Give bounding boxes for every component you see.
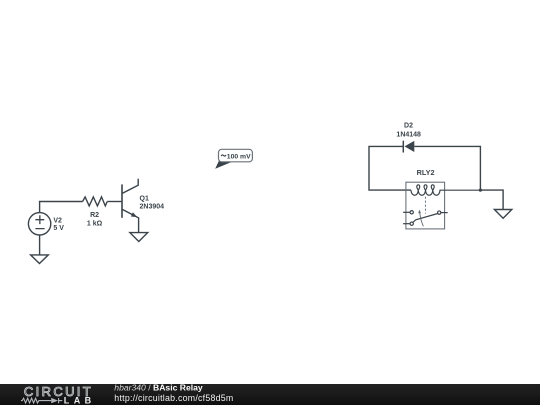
- svg-text:1N4148: 1N4148: [396, 132, 421, 139]
- svg-text:http://circuitlab.com/cf58d5m: http://circuitlab.com/cf58d5m: [114, 393, 233, 403]
- svg-text:100 mV: 100 mV: [227, 153, 251, 160]
- svg-text:5 V: 5 V: [53, 225, 64, 232]
- svg-text:LAB: LAB: [64, 396, 96, 405]
- svg-text:D2: D2: [404, 123, 413, 130]
- svg-text:2N3904: 2N3904: [140, 204, 165, 211]
- svg-text:Q1: Q1: [140, 196, 149, 203]
- svg-text:R2: R2: [90, 212, 99, 219]
- svg-text:hbar340 / BAsic Relay: hbar340 / BAsic Relay: [114, 382, 203, 392]
- svg-text:1 kΩ: 1 kΩ: [87, 221, 103, 228]
- svg-text:RLY2: RLY2: [417, 168, 435, 177]
- svg-text:V2: V2: [53, 217, 62, 224]
